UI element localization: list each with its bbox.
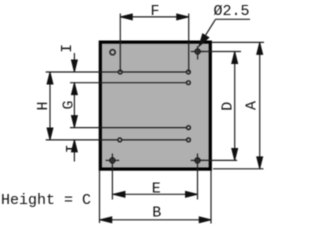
leader line for hole diameter	[199, 19, 250, 46]
hole top-left	[110, 50, 115, 55]
pin row1 right	[187, 70, 191, 74]
svg-text:D: D	[220, 102, 237, 111]
dimension D extension line top	[198, 51, 241, 53]
dimension G line with arrows	[71, 83, 77, 128]
svg-text:G: G	[60, 100, 77, 109]
svg-text:Height = C: Height = C	[1, 192, 91, 209]
svg-text:I: I	[59, 44, 76, 53]
wire row1 extension line	[46, 71, 189, 73]
wire row4 extension line	[46, 139, 189, 141]
wire row3 extension line	[70, 127, 189, 129]
svg-text:H: H	[35, 101, 52, 110]
dimension D extension line bottom	[198, 159, 238, 161]
dimension I bottom line with arrow	[71, 140, 77, 162]
dimension F line with arrows	[120, 14, 188, 20]
svg-text:I: I	[64, 144, 81, 153]
svg-text:Ø2.5: Ø2.5	[214, 3, 250, 20]
dimension A line with arrows	[257, 42, 263, 168]
dimension A extension line top	[212, 41, 265, 43]
dimension B extension line left	[99, 171, 101, 224]
component body	[100, 42, 210, 169]
pin row3 right	[187, 126, 191, 130]
dimension B extension line right	[210, 171, 212, 224]
dimension E extension line right	[197, 154, 199, 200]
hole top-right (2.5mm) with crosshair	[191, 46, 205, 60]
svg-text:A: A	[244, 101, 261, 110]
svg-text:F: F	[150, 3, 159, 20]
svg-text:E: E	[152, 180, 161, 197]
hole bottom-right with crosshair	[191, 158, 205, 163]
dimension D line with arrows	[232, 52, 238, 161]
pin row4 left	[118, 138, 122, 142]
dimension F extension line right	[188, 14, 190, 73]
svg-text:B: B	[152, 205, 161, 222]
dimension B line with arrows	[100, 217, 211, 223]
dimension F extension line left	[119, 14, 121, 73]
dimension E line with arrows	[113, 191, 198, 197]
pin row4 right	[187, 138, 191, 142]
wire row2 extension line	[70, 82, 188, 84]
dimension H line with arrows	[47, 72, 53, 140]
dimension I top line with arrow	[71, 53, 77, 72]
dimension A extension line bottom	[213, 168, 264, 170]
pin row1 left	[118, 70, 122, 74]
hole bottom-left with crosshair	[106, 158, 120, 163]
pin row2 right	[187, 81, 191, 85]
dimension E extension line left	[111, 154, 113, 200]
